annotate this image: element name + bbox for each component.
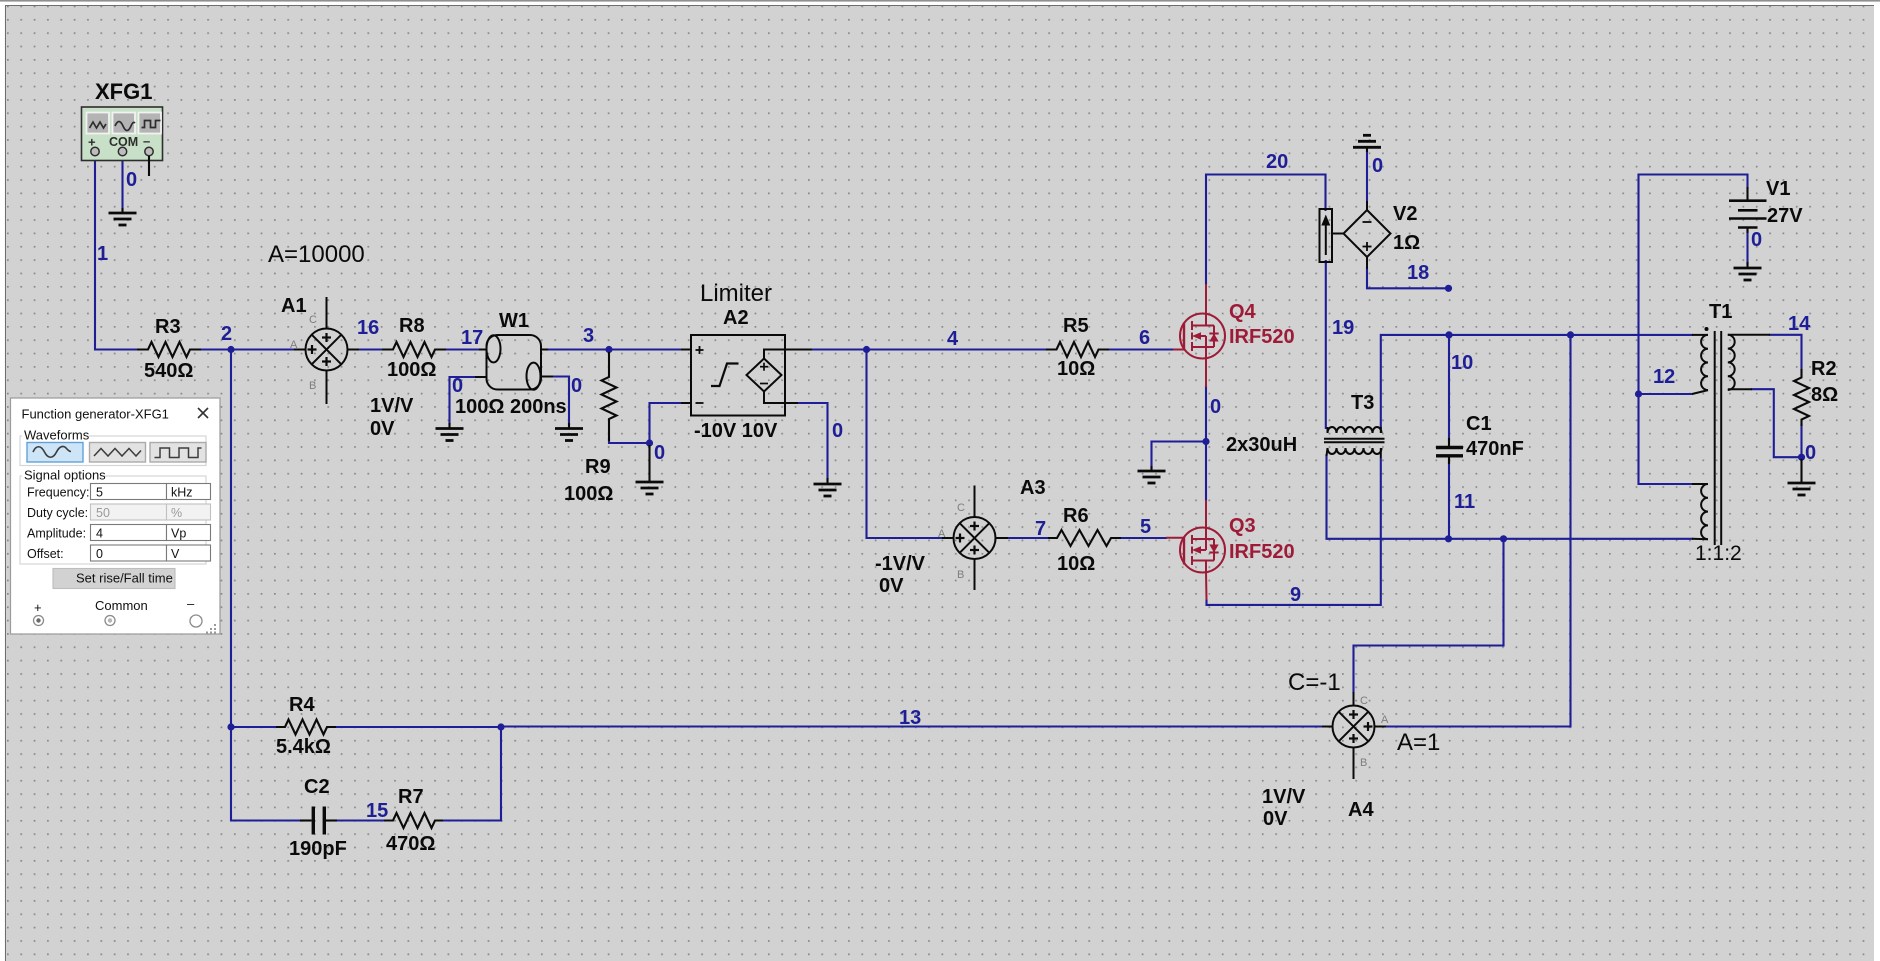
svg-text:R8: R8	[399, 315, 425, 337]
svg-text:B: B	[309, 380, 316, 392]
wire net 12 T1 lower primary top terminal	[1639, 394, 1693, 484]
resistor R7	[384, 813, 443, 828]
junction net 18 end	[1445, 285, 1452, 292]
svg-text:A: A	[1381, 714, 1389, 726]
svg-text:5: 5	[96, 486, 103, 500]
svg-text:Limiter: Limiter	[700, 280, 772, 307]
svg-text:20: 20	[1266, 151, 1288, 173]
svg-text:9: 9	[1290, 584, 1301, 606]
svg-text:0: 0	[126, 169, 137, 191]
svg-text:A2: A2	[723, 307, 749, 329]
multiplier A1	[294, 297, 359, 404]
svg-text:0: 0	[654, 442, 665, 464]
svg-text:C1: C1	[1466, 413, 1492, 435]
wire net 0 R2 bottom junction	[1800, 425, 1802, 457]
svg-text:Q3: Q3	[1229, 515, 1256, 537]
svg-text:14: 14	[1788, 313, 1811, 335]
svg-text:17: 17	[461, 327, 483, 349]
svg-text:kHz: kHz	[171, 486, 193, 500]
svg-text:Vp: Vp	[171, 527, 186, 541]
svg-text:540Ω: 540Ω	[144, 360, 193, 382]
svg-text:0V: 0V	[1263, 808, 1288, 830]
wire net 6 R5 to Q4 gate	[1108, 348, 1173, 350]
svg-text:R2: R2	[1811, 358, 1837, 380]
mosfet Q3 IRF520	[1166, 500, 1225, 600]
multiplier A4 mirrored	[1322, 692, 1386, 779]
svg-text:10: 10	[1451, 352, 1473, 374]
svg-text:27V: 27V	[1767, 205, 1803, 227]
ground R9 A2minus	[636, 445, 664, 494]
svg-text:4: 4	[96, 527, 103, 541]
junction R2 bottom	[1798, 454, 1805, 461]
wire net 1 XFG1+ to R3	[95, 156, 139, 350]
limiter block A2	[681, 335, 812, 416]
svg-text:A: A	[290, 339, 298, 351]
svg-text:10Ω: 10Ω	[1057, 553, 1095, 575]
window frame top line	[0, 0, 1880, 2]
wire net 13 A4 output long wire to R4 junction	[501, 725, 1322, 727]
wire net 0 Q4 source to Q3 drain with ground branch	[1205, 386, 1207, 500]
svg-text:0: 0	[1210, 396, 1221, 418]
svg-text:8Ω: 8Ω	[1811, 384, 1838, 406]
svg-text:Signal options: Signal options	[24, 468, 106, 483]
capacitor C2	[300, 807, 337, 835]
ground A2 output side	[814, 478, 842, 496]
svg-text:R9: R9	[585, 456, 611, 478]
wire net 0 A2 lower-right to ground	[798, 403, 828, 480]
wire net 0 W1 lower-right to ground	[551, 377, 569, 425]
wire net 10 T3 top coil right up and right to T1	[1381, 335, 1692, 428]
svg-text:A3: A3	[1020, 477, 1046, 499]
wire net 0 A2 minus feed	[650, 403, 682, 443]
svg-text:IRF520: IRF520	[1229, 541, 1295, 563]
junction net 12 at A4 riser	[1567, 331, 1574, 338]
svg-text:C2: C2	[304, 776, 330, 798]
wire net 19 V2 sense bottom down to T3 top coil left	[1325, 261, 1327, 428]
svg-text:5: 5	[1140, 516, 1151, 538]
svg-text:-1V/V: -1V/V	[875, 553, 926, 575]
svg-text:A: A	[938, 528, 946, 540]
svg-text:W1: W1	[499, 310, 529, 332]
svg-text:Duty cycle:: Duty cycle:	[27, 506, 88, 520]
junction node 4	[863, 346, 870, 353]
wire net 18 V2 plus to open end	[1367, 268, 1449, 288]
svg-text:A4: A4	[1348, 799, 1374, 821]
wire net 11 junction down to A4 C input	[1354, 539, 1504, 692]
svg-text:1Ω: 1Ω	[1393, 232, 1420, 254]
wire net 0 W1 lower-left to ground	[450, 377, 479, 424]
current sense rect of V2	[1320, 209, 1333, 262]
svg-text:%: %	[171, 506, 182, 520]
wire net 9 Q3 source to T3 bottom coil right	[1207, 459, 1381, 605]
svg-text:0V: 0V	[370, 418, 395, 440]
resistor R4	[276, 720, 336, 735]
svg-text:15: 15	[366, 800, 388, 822]
svg-text:R5: R5	[1063, 315, 1089, 337]
wire net 13 R4 C2 loop left vertical	[231, 727, 300, 821]
mosfet Q4 IRF520	[1173, 284, 1225, 387]
svg-text:1:1:2: 1:1:2	[1695, 542, 1742, 565]
junction R4 left	[227, 723, 234, 730]
svg-text:10Ω: 10Ω	[1057, 358, 1095, 380]
svg-text:50: 50	[96, 506, 110, 520]
junction node 2	[227, 346, 234, 353]
svg-text:C=-1: C=-1	[1288, 669, 1341, 696]
junction node 3	[605, 346, 612, 353]
svg-text:B: B	[1360, 757, 1367, 769]
resistor R9 vertical	[602, 352, 617, 441]
inverted ground above V2	[1353, 135, 1381, 152]
svg-text:A=10000: A=10000	[268, 241, 365, 268]
svg-text:1V/V: 1V/V	[370, 395, 414, 417]
svg-text:V: V	[171, 547, 180, 561]
wire net 17 R8 to W1	[444, 348, 481, 350]
svg-text:0V: 0V	[879, 575, 904, 597]
svg-text:XFG1: XFG1	[95, 79, 152, 104]
svg-text:Set rise/Fall time: Set rise/Fall time	[76, 571, 173, 586]
svg-text:3: 3	[583, 325, 594, 347]
junction net 0 Q4 source	[1202, 438, 1209, 445]
wire net 16 A1 out to R8	[357, 348, 384, 350]
svg-text:A1: A1	[281, 295, 307, 317]
svg-text:-10V 10V: -10V 10V	[694, 420, 778, 442]
ground W1 left	[436, 423, 464, 441]
svg-text:–: –	[187, 596, 195, 611]
svg-text:16: 16	[357, 317, 379, 339]
svg-text:12: 12	[1653, 366, 1675, 388]
svg-text:Waveforms: Waveforms	[24, 428, 90, 443]
svg-text:Q4: Q4	[1229, 301, 1257, 323]
ground R2	[1788, 459, 1816, 495]
battery V1	[1729, 187, 1767, 233]
svg-text:0: 0	[1751, 229, 1762, 251]
wire net 0 XFG1 COM to ground	[121, 156, 123, 209]
wire net 5 R6 to Q3 gate	[1121, 537, 1166, 539]
wire net 12 V1 top loop	[1639, 175, 1748, 395]
function generator instrument XFG1	[82, 107, 163, 161]
transformer T1	[1692, 327, 1770, 545]
resistor R6	[1048, 530, 1121, 546]
svg-text:–: –	[143, 134, 150, 149]
XFG1 minus terminal stub	[148, 156, 150, 176]
capacitor C1	[1436, 438, 1463, 464]
wire net 0 branch to ground near Q3	[1152, 442, 1207, 469]
svg-text:Common: Common	[95, 598, 148, 613]
resistor R8	[382, 342, 446, 357]
junction C1 top	[1445, 331, 1452, 338]
wire net 0 T1 secondary bottom loop	[1752, 389, 1802, 457]
svg-text:Offset:: Offset:	[27, 547, 64, 561]
svg-text:Amplitude:: Amplitude:	[27, 527, 86, 541]
svg-text:0: 0	[452, 375, 463, 397]
svg-text:V1: V1	[1766, 178, 1790, 200]
wire net 14 T1 secondary top to R2	[1770, 335, 1802, 369]
svg-text:1V/V: 1V/V	[1262, 786, 1306, 808]
wire net 11 C1 bottom to wire	[1448, 461, 1450, 539]
junction net 11 A4 branch	[1500, 535, 1507, 542]
svg-text:7: 7	[1035, 518, 1046, 540]
svg-text:R7: R7	[398, 786, 424, 808]
wire net 11 bottom horizontal T3 to T1 lower coil	[1327, 455, 1693, 539]
svg-text:0: 0	[832, 420, 843, 442]
svg-text:R4: R4	[289, 694, 315, 716]
ground XFG1 COM	[109, 208, 137, 225]
svg-text:0: 0	[1372, 155, 1383, 177]
svg-text:470nF: 470nF	[1466, 438, 1524, 460]
svg-text:R6: R6	[1063, 505, 1089, 527]
svg-text:C: C	[957, 502, 965, 514]
coupled inductor T3	[1324, 427, 1385, 458]
ground V1	[1734, 262, 1762, 280]
svg-text:Function generator-XFG1: Function generator-XFG1	[22, 407, 169, 422]
wire net 10 C1 top lead drop	[1448, 335, 1450, 441]
ground W1 right	[555, 423, 583, 441]
wire net 3 W1 out to node3 to A2+	[546, 348, 681, 350]
multiplier A3	[942, 486, 1008, 591]
svg-text:C: C	[1360, 695, 1368, 707]
svg-text:11: 11	[1454, 491, 1475, 513]
svg-text:100Ω 200ns: 100Ω 200ns	[455, 396, 567, 418]
resistor R3	[137, 342, 201, 357]
svg-text:6: 6	[1139, 327, 1150, 349]
dependent source V2 diamond	[1332, 201, 1391, 269]
svg-text:A=1: A=1	[1397, 729, 1440, 756]
svg-text:470Ω: 470Ω	[386, 833, 435, 855]
wire net 15 C2 to R7	[337, 819, 384, 821]
resistor R5	[1046, 342, 1109, 357]
svg-text:IRF520: IRF520	[1229, 326, 1295, 348]
svg-text:C: C	[309, 314, 317, 326]
svg-text:190pF: 190pF	[289, 838, 347, 860]
wire net 4 node4 down to A3 input	[867, 350, 945, 539]
svg-text:T1: T1	[1709, 301, 1732, 323]
svg-text:13: 13	[899, 707, 921, 729]
svg-text:0: 0	[571, 375, 582, 397]
wire net 4 A2 out to node4 to R5	[812, 348, 1046, 350]
wire net 2 vertical node2 down to R4 row	[230, 350, 232, 728]
svg-text:5.4kΩ: 5.4kΩ	[276, 736, 331, 758]
svg-text:T3: T3	[1351, 392, 1374, 414]
wire net 20 Q4 drain up and over to V2 sense	[1206, 175, 1326, 285]
junction R4 right	[497, 723, 504, 730]
svg-text:100Ω: 100Ω	[387, 359, 436, 381]
wire net 0 V2 minus up to inverted ground	[1366, 152, 1368, 200]
svg-text:2x30uH: 2x30uH	[1226, 434, 1297, 456]
svg-text:B: B	[957, 569, 964, 581]
junction C1 bottom	[1445, 535, 1452, 542]
wire net 12 A4 input A up to T1 node	[1385, 335, 1571, 727]
transmission line W1	[475, 335, 553, 390]
svg-text:R3: R3	[155, 316, 181, 338]
resistor R2 vertical	[1794, 369, 1809, 426]
svg-text:100Ω: 100Ω	[564, 483, 613, 505]
junction R9 bottom	[646, 439, 653, 446]
wire net 13 R7 right up to R4 row	[443, 727, 501, 821]
wire net 13 R4 leads	[231, 726, 276, 728]
svg-text:V2: V2	[1393, 203, 1417, 225]
svg-text:+: +	[34, 600, 42, 615]
svg-text:19: 19	[1332, 317, 1354, 339]
svg-text:0: 0	[1805, 442, 1816, 464]
wire net 0 V1 bottom to ground	[1746, 231, 1748, 264]
svg-text:18: 18	[1407, 262, 1429, 284]
ground near Q3 drain net0	[1138, 466, 1166, 483]
svg-text:0: 0	[96, 547, 103, 561]
svg-text:Frequency:: Frequency:	[27, 486, 90, 500]
wire net 7 A3 out to R6	[1007, 537, 1048, 539]
wire net 2 R3 to A1 and node 2	[199, 348, 296, 350]
wire net 0 R9 bottom to junction to A2 minus	[609, 439, 650, 443]
junction node 12	[1635, 390, 1642, 397]
svg-text:4: 4	[947, 328, 959, 350]
svg-text:2: 2	[221, 323, 232, 345]
dialog Function generator XFG1	[11, 398, 221, 634]
svg-text:1: 1	[97, 243, 108, 265]
